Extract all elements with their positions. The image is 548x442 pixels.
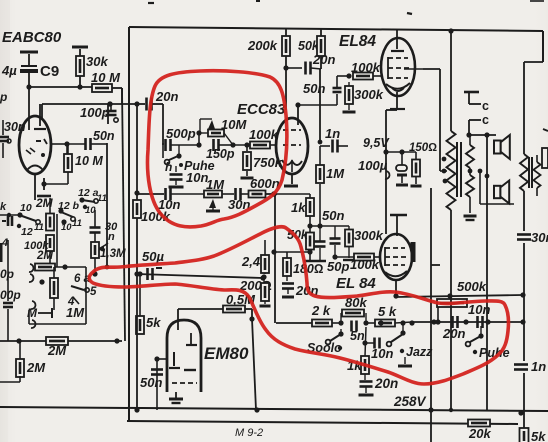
svg-text:5k: 5k: [531, 429, 546, 442]
svg-text:200k: 200k: [247, 38, 278, 53]
svg-text:20k: 20k: [468, 426, 491, 441]
svg-text:c: c: [482, 113, 489, 127]
svg-text:5 k: 5 k: [378, 304, 397, 319]
svg-text:11: 11: [34, 222, 44, 233]
svg-text:180Ω: 180Ω: [293, 262, 324, 276]
svg-text:12: 12: [21, 226, 33, 238]
svg-text:20n: 20n: [374, 376, 398, 391]
svg-text:150Ω: 150Ω: [409, 142, 437, 154]
svg-text:EL84: EL84: [339, 33, 376, 50]
svg-text:n: n: [108, 231, 115, 243]
svg-text:500k: 500k: [457, 279, 487, 294]
svg-text:500p: 500p: [166, 126, 196, 141]
svg-text:Jazz: Jazz: [406, 345, 433, 359]
svg-text:30n: 30n: [4, 120, 26, 134]
svg-text:C9: C9: [40, 63, 59, 80]
svg-text:100k: 100k: [24, 240, 49, 252]
svg-text:11: 11: [72, 218, 82, 229]
svg-text:2 k: 2 k: [311, 303, 331, 318]
svg-text:5: 5: [90, 286, 97, 298]
svg-text:EL 84: EL 84: [336, 275, 376, 292]
svg-text:2M: 2M: [35, 196, 54, 210]
svg-text:2M: 2M: [47, 343, 67, 358]
svg-text:1,3M: 1,3M: [100, 248, 126, 260]
svg-text:20n: 20n: [442, 326, 465, 341]
svg-text:0p: 0p: [0, 267, 14, 281]
svg-text:100k: 100k: [249, 127, 279, 142]
svg-text:1M: 1M: [206, 177, 225, 192]
svg-text:1k: 1k: [291, 200, 306, 215]
svg-text:5n: 5n: [350, 329, 365, 343]
svg-text:h: h: [165, 160, 172, 174]
svg-text:1n: 1n: [325, 126, 340, 141]
svg-text:10 M: 10 M: [91, 70, 121, 85]
svg-text:EABC80: EABC80: [2, 29, 62, 46]
svg-text:M 9-2: M 9-2: [235, 427, 263, 439]
svg-text:50p: 50p: [327, 259, 349, 274]
svg-text:100µ: 100µ: [358, 158, 388, 173]
svg-text:c: c: [482, 99, 489, 113]
svg-text:100k: 100k: [350, 257, 380, 272]
svg-text:10: 10: [20, 202, 32, 214]
svg-text:00p: 00p: [0, 288, 21, 302]
svg-text:1M: 1M: [326, 166, 345, 181]
svg-text:258V: 258V: [393, 394, 427, 409]
svg-text:50n: 50n: [322, 208, 344, 223]
svg-text:20n: 20n: [155, 89, 178, 104]
svg-text:1M: 1M: [66, 305, 85, 320]
svg-text:10M: 10M: [221, 117, 247, 132]
svg-text:20n: 20n: [312, 52, 335, 67]
svg-text:300k: 300k: [354, 87, 384, 102]
svg-text:100k: 100k: [141, 209, 171, 224]
svg-text:ECC83: ECC83: [237, 101, 286, 118]
svg-text:100p: 100p: [80, 105, 110, 120]
svg-text:600n: 600n: [250, 176, 280, 191]
svg-text:EM80: EM80: [204, 344, 249, 363]
svg-text:k: k: [0, 201, 7, 213]
svg-text:300k: 300k: [354, 228, 384, 243]
svg-text:30k: 30k: [86, 54, 108, 69]
svg-text:50n: 50n: [303, 81, 325, 96]
svg-text:5k: 5k: [146, 315, 161, 330]
svg-text:10 M: 10 M: [75, 154, 103, 168]
svg-text:50n: 50n: [93, 129, 115, 143]
svg-text:4µ: 4µ: [1, 63, 17, 78]
svg-text:50n: 50n: [140, 375, 162, 390]
svg-text:10: 10: [61, 222, 72, 233]
svg-text:2M: 2M: [26, 360, 46, 375]
svg-text:100k: 100k: [351, 60, 381, 75]
svg-text:p: p: [0, 90, 7, 104]
svg-text:30n: 30n: [531, 230, 548, 245]
svg-text:12 a: 12 a: [78, 187, 99, 199]
svg-text:10n: 10n: [371, 346, 393, 361]
svg-text:50µ: 50µ: [142, 249, 164, 264]
svg-text:9,5V: 9,5V: [363, 136, 390, 150]
svg-text:1n: 1n: [531, 359, 546, 374]
